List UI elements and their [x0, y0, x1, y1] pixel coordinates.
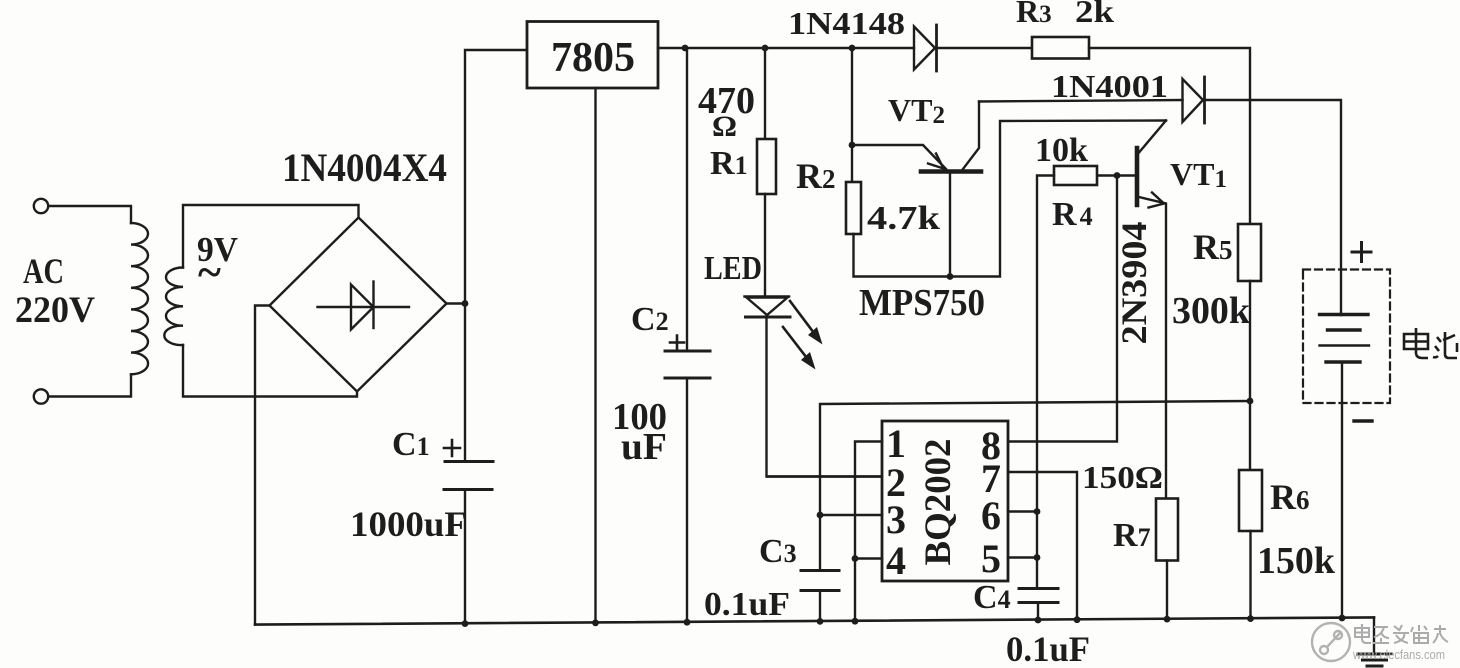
- node rail C3: [817, 618, 824, 625]
- node rail R7: [1164, 616, 1171, 623]
- node rail C2: [684, 619, 691, 626]
- svg-text:R4: R4: [1052, 196, 1093, 233]
- svg-text:R6: R6: [1270, 477, 1310, 517]
- transistor VT1 base bar: [1135, 148, 1140, 205]
- wire 1N4001 cathode to battery: [1205, 100, 1342, 315]
- svg-text:LED: LED: [704, 250, 762, 287]
- pin 4 wire: [855, 557, 882, 559]
- wire secondary bottom to bridge bottom vertex: [183, 345, 357, 397]
- svg-text:0.1uF: 0.1uF: [704, 586, 790, 623]
- wire R5 bottom to node: [1249, 281, 1251, 401]
- svg-text:VT2: VT2: [888, 92, 945, 129]
- bridge inner diode symbol: [318, 306, 410, 308]
- pin 6 wire: [1008, 510, 1037, 512]
- wire VT1 base to R4: [1097, 174, 1135, 176]
- capacitor C1 plates: [445, 460, 493, 463]
- svg-text:BQ2002: BQ2002: [918, 439, 959, 566]
- node rail battery: [1339, 615, 1346, 622]
- svg-text:~: ~: [198, 248, 221, 297]
- wire C3 bottom to rail: [819, 591, 821, 623]
- resistor R3 body: [1032, 37, 1089, 59]
- diode D3 1N4001: [1183, 79, 1204, 122]
- LED arrow 1: [790, 301, 817, 337]
- wire R4 left down to C4 net: [1037, 176, 1054, 589]
- svg-text:300k: 300k: [1172, 290, 1251, 332]
- wire LED cathode down to IC pin2: [767, 317, 883, 477]
- svg-text:R5: R5: [1193, 227, 1233, 267]
- wire battery negative down to rail: [1341, 362, 1343, 618]
- svg-text:C3: C3: [759, 533, 797, 570]
- pin 5 wire: [1008, 556, 1037, 558]
- wire C4 bottom to rail: [1037, 603, 1039, 619]
- wire R2 bottom / VT2 base net: [854, 121, 1167, 277]
- node rail R6: [1247, 615, 1254, 622]
- node pin5 / R4 net: [1034, 554, 1041, 561]
- wire R1 to LED: [764, 194, 766, 296]
- svg-text:2k: 2k: [1075, 0, 1114, 29]
- svg-text:R7: R7: [1113, 517, 1151, 554]
- svg-text:5: 5: [981, 536, 1001, 581]
- svg-text:10k: 10k: [1035, 132, 1088, 169]
- svg-text:R2: R2: [796, 156, 836, 196]
- wire R1 riser: [764, 48, 766, 139]
- node rail pin7: [1074, 616, 1081, 623]
- svg-text:150Ω: 150Ω: [1082, 459, 1163, 495]
- svg-text:AC: AC: [23, 251, 64, 291]
- capacitor C2 plates: [665, 350, 710, 353]
- svg-text:1N4004X4: 1N4004X4: [282, 145, 447, 190]
- svg-text:0.1uF: 0.1uF: [1006, 629, 1090, 668]
- transformer T1 primary winding: [131, 223, 148, 374]
- LED symbol: [745, 295, 790, 297]
- wire bridge left vertex down to ground rail: [255, 306, 270, 625]
- wire bridge right vertex to DC+ node: [447, 302, 466, 304]
- resistor R2 body: [846, 182, 861, 234]
- node C2 tap: [682, 45, 689, 52]
- pin 2 wire (joins LED cathode line): [767, 475, 882, 477]
- wire C1 bottom to rail: [464, 490, 466, 625]
- node rail 7805 gnd: [592, 619, 599, 626]
- transistor VT2 collector lead: [963, 102, 979, 170]
- diode D2 1N4148: [914, 27, 935, 70]
- svg-text:1N4001: 1N4001: [1051, 68, 1168, 104]
- wire 7805 output to top rail: [658, 47, 914, 49]
- wire C2 bottom to rail: [686, 378, 688, 623]
- bridge rectifier 1N4004X4 diamond: [270, 218, 447, 392]
- wire DC+ riser to 7805 input: [465, 50, 527, 461]
- node pin3 / C3 junction: [817, 512, 824, 519]
- resistor R4 body: [1054, 166, 1097, 185]
- resistor R5 body: [1238, 224, 1261, 281]
- regulator U1 7805 box: [527, 22, 658, 89]
- wire primary bottom to lower terminal: [49, 375, 132, 397]
- svg-text:C1: C1: [392, 426, 430, 463]
- wire top terminal to primary: [49, 206, 132, 223]
- wire 5V node down to emitter node: [851, 48, 853, 145]
- node rail pin1/4: [852, 618, 859, 625]
- transistor VT1 emitter lead with arrow: [1139, 197, 1166, 499]
- transistor VT2 base bar: [921, 169, 981, 174]
- wire R3 to right riser: [1089, 48, 1250, 224]
- svg-text:VT1: VT1: [1170, 156, 1227, 193]
- terminal top-left: [34, 199, 48, 213]
- resistor R6 body: [1239, 470, 1262, 531]
- battery plus sign: [1352, 243, 1371, 262]
- svg-text:1N4148: 1N4148: [788, 5, 905, 41]
- transistor VT1 collector lead: [1139, 121, 1166, 153]
- transformer T1 secondary winding: [164, 267, 183, 345]
- svg-text:3: 3: [886, 497, 906, 542]
- wire VT2 collector to 1N4001 anode: [979, 100, 1183, 102]
- wire 1N4148 cathode to R3: [937, 47, 1033, 49]
- svg-text:2N3904: 2N3904: [1114, 222, 1154, 345]
- ground symbol: [1373, 617, 1375, 653]
- resistor R7 body: [1156, 499, 1178, 561]
- resistor R1 body: [757, 139, 776, 194]
- wire 7805 ground pin to rail: [594, 88, 596, 624]
- node rail C1: [462, 620, 469, 627]
- wire R2 top: [851, 145, 853, 182]
- node R1 tap: [762, 45, 769, 52]
- node pin4 / pin1 junction: [852, 555, 859, 562]
- battery minus sign: [1354, 419, 1372, 422]
- transistor VT2 emitter lead with arrow: [852, 145, 946, 169]
- svg-text:www.elecfans.com: www.elecfans.com: [1352, 647, 1445, 662]
- battery plates: [1320, 313, 1369, 316]
- node pin6 / R4 net: [1034, 508, 1041, 515]
- svg-text:R1: R1: [710, 145, 748, 182]
- pin 3 wire: [820, 514, 882, 516]
- svg-text:uF: uF: [621, 426, 667, 468]
- svg-text:1000uF: 1000uF: [350, 504, 467, 544]
- wire C2 riser: [686, 48, 688, 351]
- node VT2 base junction: [947, 273, 954, 280]
- VT2 emitter arrowhead: [928, 154, 944, 169]
- watermark text 电子发烧友: [1355, 624, 1448, 643]
- svg-text:Ω: Ω: [712, 110, 737, 143]
- C1 plus sign: [444, 440, 460, 456]
- svg-text:220V: 220V: [15, 290, 95, 331]
- node VT1 base / pin8 riser: [1114, 172, 1121, 179]
- battery dashed box: [1303, 270, 1390, 404]
- node VT2 emitter / R2 top: [849, 142, 856, 149]
- capacitor C4 plates: [1019, 587, 1058, 590]
- svg-text:C4: C4: [973, 579, 1011, 616]
- wire pin8 riser: [1008, 176, 1117, 442]
- node R5/R6 junction: [1247, 398, 1254, 405]
- IC U2 BQ2002 box: [882, 421, 1008, 581]
- node rail C4: [1035, 617, 1042, 624]
- node 5V tap at VT2 branch: [849, 45, 856, 52]
- svg-text:4.7k: 4.7k: [867, 200, 940, 237]
- svg-text:7805: 7805: [551, 35, 635, 81]
- wire R7 bottom to rail: [1166, 561, 1168, 619]
- wire R6 top: [1249, 401, 1251, 470]
- pin 1 wire: [855, 442, 882, 623]
- wire R6 bottom to rail: [1249, 531, 1251, 618]
- svg-text:C2: C2: [631, 301, 669, 338]
- LED arrow 2: [783, 327, 810, 362]
- svg-text:MPS750: MPS750: [859, 282, 985, 324]
- capacitor C3 plates: [801, 569, 839, 572]
- VT1 emitter arrowhead: [1149, 193, 1165, 208]
- terminal bottom-left: [34, 389, 48, 403]
- svg-text:150k: 150k: [1257, 540, 1336, 582]
- watermark logo: [1312, 623, 1350, 661]
- svg-text:4: 4: [886, 538, 906, 583]
- wire secondary top to bridge top vertex: [183, 205, 359, 268]
- node DC+ at C1: [462, 300, 469, 307]
- pin 7 wire: [1008, 472, 1077, 619]
- C2 plus sign: [670, 336, 684, 350]
- svg-text:R3: R3: [1016, 0, 1052, 29]
- label battery 电池 (hand drawn): [1404, 328, 1457, 358]
- svg-text:6: 6: [981, 493, 1001, 538]
- ground rail: [255, 617, 1374, 624]
- wire VT2 base stub: [949, 174, 951, 277]
- wire feedback net to pin3 branch: [820, 401, 1250, 570]
